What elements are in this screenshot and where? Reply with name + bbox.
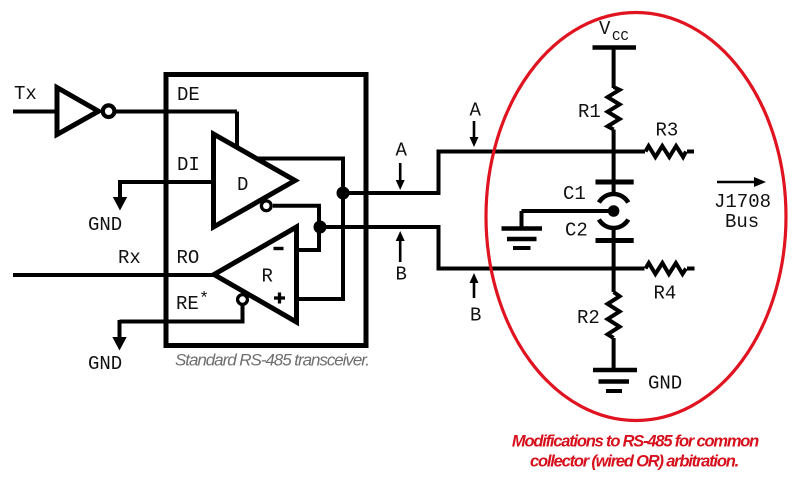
svg-text:B: B [396, 264, 407, 286]
svg-text:D: D [237, 174, 248, 196]
svg-text:R: R [262, 266, 273, 288]
svg-text:Modifications to RS-485 for co: Modifications to RS-485 for common [512, 433, 759, 451]
svg-text:R1: R1 [578, 101, 601, 123]
svg-text:R2: R2 [577, 307, 600, 329]
svg-text:V: V [599, 18, 611, 40]
svg-text:GND: GND [88, 353, 122, 375]
svg-text:A: A [396, 140, 408, 162]
svg-text:J1708: J1708 [714, 191, 771, 213]
svg-text:DI: DI [177, 154, 200, 176]
svg-text:RE: RE [176, 293, 199, 315]
svg-text:Bus: Bus [725, 211, 759, 233]
svg-text:B: B [470, 305, 481, 327]
svg-text:*: * [199, 290, 209, 309]
svg-text:R3: R3 [656, 120, 679, 142]
svg-text:GND: GND [648, 373, 682, 395]
svg-text:CC: CC [612, 29, 629, 45]
svg-text:Rx: Rx [118, 247, 141, 269]
svg-text:C1: C1 [563, 183, 586, 205]
svg-text:Tx: Tx [14, 83, 37, 105]
svg-text:RO: RO [177, 247, 200, 269]
svg-text:Standard RS-485 transceiver.: Standard RS-485 transceiver. [175, 351, 369, 370]
svg-text:R4: R4 [654, 283, 677, 305]
svg-text:C2: C2 [565, 220, 588, 242]
svg-text:collector (wired OR) arbitrati: collector (wired OR) arbitration. [530, 453, 739, 471]
svg-text:DE: DE [177, 84, 200, 106]
svg-text:A: A [470, 100, 482, 122]
svg-text:GND: GND [88, 214, 122, 236]
